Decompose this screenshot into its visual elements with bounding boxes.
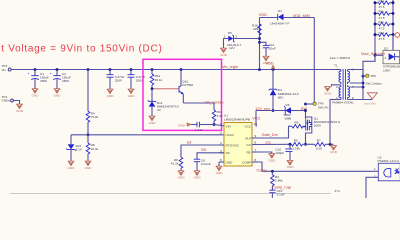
svg-text:47.5: 47.5 (379, 5, 385, 9)
svg-text:VDD: VDD (266, 61, 274, 65)
svg-text:2: 2 (336, 85, 338, 89)
svg-text:75.0k: 75.0k (91, 115, 99, 119)
resistor R4 1.96k (271, 171, 283, 190)
svg-text:2: 2 (374, 175, 376, 179)
svg-text:47.5: 47.5 (379, 26, 385, 30)
marker red circle (395, 33, 400, 38)
svg-text:4.7uF: 4.7uF (195, 128, 203, 132)
resistor R1b 47.5 (375, 10, 393, 20)
svg-text:1: 1 (220, 122, 222, 126)
wire VCC feed to U1 (256, 111, 257, 127)
wire SW to TP6 (306, 103, 315, 105)
ground GND below FB (268, 154, 276, 163)
svg-text:499: 499 (253, 27, 258, 31)
svg-text:R5: R5 (295, 120, 299, 124)
svg-text:2: 2 (220, 131, 222, 135)
resistor R11 3.32 (212, 110, 223, 125)
transistor Q1 BSC060N10NS3 MOSFET (303, 111, 341, 145)
svg-text:100V: 100V (383, 68, 391, 72)
svg-text:SS: SS (226, 151, 230, 155)
svg-text:1N4148W-7-F: 1N4148W-7-F (270, 22, 289, 26)
wire VDD corner to D1 (259, 18, 261, 70)
svg-text:R1d: R1d (379, 31, 385, 35)
node TP5 SW_2ndary test point (363, 74, 382, 85)
svg-text:2: 2 (224, 35, 226, 39)
svg-text:1: 1 (374, 167, 376, 171)
pin 9 OUT (252, 137, 257, 139)
svg-text:100pF: 100pF (275, 151, 284, 155)
junction SW_2ndary mid (362, 82, 365, 85)
svg-text:5: 5 (220, 158, 222, 162)
capacitor C2 150uF 250V (50, 70, 71, 89)
opto LED (384, 169, 391, 177)
svg-text:GND: GND (226, 160, 234, 164)
svg-text:ut Voltage = 9Vin to 150Vin (D: ut Voltage = 9Vin to 150Vin (DC) (0, 44, 163, 55)
wire T1 primary bottom to return (330, 99, 341, 101)
wire VIN row to U1 (214, 125, 224, 126)
diode D4 SMBJ60A-13-F TVS (269, 70, 299, 111)
ground GND below C1 (32, 89, 40, 98)
svg-text:60V: 60V (278, 95, 284, 99)
wire T1 aux bottom to GND (332, 85, 341, 87)
resistor R9 41.2k (171, 157, 183, 171)
junction SW / TP6 wire (304, 103, 307, 106)
wire CS row (257, 143, 292, 145)
svg-text:Iso Gnd: Iso Gnd (365, 101, 376, 105)
ground GND below Dz2 (68, 161, 76, 170)
zener diode Dz2 5.1V (66, 135, 83, 161)
svg-text:LM5022MM/NOPB: LM5022MM/NOPB (224, 117, 250, 121)
svg-text:3: 3 (220, 141, 222, 145)
svg-text:250V: 250V (40, 79, 48, 83)
bottom grey separator line (10, 193, 331, 195)
junction dots on Vin rail (34, 68, 275, 71)
pin 8 CS (252, 144, 257, 146)
wire COMP to opto (long) (257, 162, 378, 171)
ground GND below C6 (194, 171, 202, 180)
resistor R1d 47.5 (375, 31, 393, 41)
pin 4 SS (219, 152, 224, 154)
svg-text:VCC: VCC (245, 124, 252, 128)
junction R7 / primary return (329, 143, 332, 146)
svg-text:47u: 47u (335, 189, 340, 193)
svg-text:10.4k: 10.4k (91, 147, 99, 151)
resistor R4 75.0k (UVLO upper) (86, 70, 98, 135)
wire opto pin2 return (366, 177, 378, 198)
svg-text:1.18k: 1.18k (292, 147, 300, 151)
pin 6 COMP (252, 161, 257, 163)
opto-coupler U2 PS2801-1-F3-A (374, 155, 400, 181)
svg-text:Vin_nonIso: Vin_nonIso (205, 100, 224, 104)
svg-text:COMP: COMP (242, 160, 251, 164)
junction SW / D6 (304, 109, 307, 112)
svg-text:0.01uF: 0.01uF (201, 162, 211, 166)
svg-text:R7: R7 (317, 138, 321, 142)
wire Rb1 to Qb1 base (red) (152, 88, 179, 90)
svg-text:D1: D1 (278, 9, 282, 13)
svg-text:10uF: 10uF (269, 47, 276, 51)
svg-text:12V: 12V (229, 46, 235, 50)
wire OUT to gate resistor (257, 126, 292, 138)
svg-text:VDD: VDD (259, 13, 267, 17)
transistor Qb1 FZT560 (179, 70, 193, 104)
ground GND for D5 (220, 48, 228, 57)
svg-text:R1c: R1c (379, 20, 385, 24)
svg-text:PS2801-1-F3-A: PS2801-1-F3-A (378, 159, 400, 163)
ground GND below C5 (128, 89, 136, 98)
svg-text:Fsw = 329KHz: Fsw = 329KHz (330, 56, 351, 60)
svg-text:10: 10 (254, 122, 258, 126)
ground Iso Gnd symbol (365, 93, 378, 106)
ground GND at T1 aux (324, 87, 332, 96)
wire sense ladder right rail (392, 0, 394, 50)
ground GND below C3 (107, 89, 115, 98)
node TP3 Vin terminal (2, 64, 12, 72)
ground GND below U1 GND pin (216, 166, 224, 175)
resistor R7 0.02 (306, 138, 334, 150)
svg-text:9: 9 (255, 134, 257, 138)
ground GND below R8 (85, 161, 93, 170)
svg-text:250V: 250V (62, 79, 70, 83)
svg-text:VDD_MIN: VDD_MIN (293, 14, 310, 18)
svg-text:41.2k: 41.2k (171, 162, 179, 166)
wire RT/SYNC to R9 (181, 145, 224, 157)
svg-text:0.1uF: 0.1uF (277, 193, 285, 197)
ground GND below C11 (263, 56, 271, 65)
wire UVLO long run to U1 (71, 134, 224, 136)
wire setpoint to D2 anode (375, 54, 383, 56)
resistor Rb1 26.1k (150, 70, 162, 89)
junctions ladder row3 (374, 23, 377, 26)
resistor R1c 47.5 (375, 20, 393, 30)
svg-text:PA0864-XXXNL: PA0864-XXXNL (332, 101, 354, 105)
svg-text:250V: 250V (115, 79, 123, 83)
resistor R16 499 (252, 24, 261, 36)
svg-text:12V_reg: 12V_reg (255, 107, 269, 111)
capacitor C11 10uF (260, 42, 276, 56)
junction COMP / R4 (271, 170, 274, 173)
junction R11 / VIN row (213, 123, 216, 126)
wire D5 ground link (224, 39, 229, 49)
resistor R1a 47.5 (375, 0, 393, 9)
node TP4 GNDin terminal (2, 95, 14, 103)
wire sense ladder left rail (374, 3, 376, 62)
capacitor C5 0.47uF 250V (128, 70, 146, 90)
svg-text:R1b: R1b (379, 10, 385, 14)
ground GND at R7 (330, 146, 338, 155)
junctions ladder row1 (374, 1, 377, 4)
svg-text:Vin_regIn: Vin_regIn (222, 65, 238, 69)
svg-text:Vin: Vin (2, 68, 7, 72)
svg-text:D5: D5 (228, 31, 232, 35)
highlight box (magenta) pre-regulator (143, 59, 222, 130)
svg-text:5.1V: 5.1V (76, 147, 83, 151)
wire VDD_MIN vertical to TP6 (313, 18, 315, 104)
wire setpoint down to secondary rail (363, 55, 375, 76)
diode D1 1N4148W-7-F (260, 9, 315, 25)
svg-text:6: 6 (255, 158, 257, 162)
pin 5 GND (219, 161, 224, 163)
resistor R8 10.4k (UVLO lower) (86, 135, 98, 161)
diode D2 STPS8H100 boxed (383, 47, 400, 73)
wire secondary taps (348, 83, 373, 100)
svg-text:Gate_Drv: Gate_Drv (262, 133, 278, 137)
resistor R5 gate (292, 120, 306, 128)
winding primary upper-left (339, 70, 341, 85)
junction Rb1/Dz1 (151, 87, 154, 90)
ground GND below Dz1 (149, 116, 157, 125)
junction setpoint / D2 (374, 54, 377, 57)
winding secondary upper-right (348, 70, 350, 85)
capacitor C6 4.7uF (inline VIN bypass) (195, 122, 214, 132)
svg-text:VIN: VIN (226, 124, 231, 128)
svg-text:100V: 100V (314, 124, 322, 128)
wire 12V_reg row (256, 110, 285, 112)
junction Q1 source / CS row (304, 143, 307, 146)
wire T1 secondary top to SW_2ndary rail (348, 70, 363, 100)
capacitor C1 150uF 250V (28, 70, 49, 89)
svg-text:1.96k: 1.96k (275, 179, 283, 183)
capacitor C6 0.01uF (194, 158, 211, 170)
net label GND arrow (VIN cap return) (178, 123, 197, 128)
svg-text:RT/SYNC: RT/SYNC (226, 143, 240, 147)
svg-text:TP5: TP5 (370, 74, 376, 78)
svg-text:FB: FB (247, 150, 251, 154)
winding lower-left (339, 85, 341, 100)
junction R16/C11 (258, 41, 261, 44)
svg-text:47.5: 47.5 (379, 37, 385, 41)
pin 3 RT/SYNC (219, 144, 224, 146)
junction SW_2ndary lower (362, 86, 365, 89)
junction D4 / 12V_reg row (272, 109, 275, 112)
junction CS / C10 (289, 143, 292, 146)
junction UVLO divider (87, 133, 90, 136)
opto transistor (395, 168, 400, 174)
svg-text:GND: GND (178, 123, 186, 127)
svg-text:R6: R6 (294, 138, 298, 142)
wire ladder right rail into D2 box (392, 35, 394, 51)
wire TP4 to ground (13, 101, 19, 105)
svg-text:SS: SS (201, 148, 207, 152)
op-amp U1 LM5022MM/NOPB controller (219, 114, 257, 167)
svg-text:8: 8 (255, 141, 257, 145)
diode D6 200V SMB (284, 103, 306, 121)
wire SS to C6 (197, 153, 224, 159)
svg-text:SMB: SMB (285, 117, 292, 121)
ground GND below R9 (178, 171, 186, 180)
net label VDD (arrow up at rail) (266, 61, 275, 68)
svg-text:7: 7 (255, 148, 257, 152)
capacitor C10 100pF (275, 144, 292, 160)
svg-text:3.32: 3.32 (217, 114, 223, 118)
svg-text:R1a: R1a (379, 0, 385, 3)
zener diode Dz1 MMSZ4678T1G (148, 89, 180, 116)
ground GND below C2 (54, 89, 62, 98)
svg-text:47.5: 47.5 (379, 16, 385, 20)
svg-text:2: 2 (385, 56, 387, 60)
svg-text:4: 4 (336, 68, 338, 72)
junction R16/D5 (258, 37, 261, 40)
svg-text:VCC: VCC (252, 117, 260, 121)
svg-text:SW_2ndary: SW_2ndary (366, 81, 383, 85)
wire primary return vertical (329, 100, 331, 145)
svg-text:26.1k: 26.1k (155, 78, 163, 82)
svg-text:GNDin: GNDin (2, 99, 12, 103)
wire FB to ground (257, 152, 272, 154)
svg-text:UVLO: UVLO (226, 133, 235, 137)
transformer T1 (330, 56, 354, 105)
pin 7 FB (252, 151, 257, 153)
svg-text:CS: CS (247, 143, 251, 147)
svg-text:FZT560: FZT560 (182, 83, 193, 87)
svg-text:SW_Pri: SW_Pri (318, 105, 329, 109)
wire Vin rail (11, 69, 341, 71)
svg-text:0.02: 0.02 (316, 147, 322, 151)
junctions ladder row4 (374, 33, 377, 36)
svg-text:OUT: OUT (245, 136, 252, 140)
ground GND below C10 (287, 161, 295, 170)
junction SW_2ndary upper (362, 75, 365, 78)
capacitor C13 (269, 189, 284, 198)
node TP6 SW_Pri test point (313, 102, 329, 110)
wire Qb1 emitter to R11 (183, 103, 214, 110)
resistor R6 1.18k (292, 138, 306, 150)
zener diode D5 DFLZ12-7 12V (224, 31, 260, 50)
winding lower-right (348, 85, 350, 100)
wire U1 GND pin down (218, 162, 220, 166)
capacitor C3 0.47uF 250V (107, 70, 125, 90)
svg-text:Comp: Comp (257, 168, 267, 172)
svg-text:4: 4 (220, 149, 222, 153)
ground GND below TP4 (16, 104, 24, 113)
junctions ladder row2 (374, 12, 377, 15)
svg-text:D6: D6 (286, 103, 290, 107)
